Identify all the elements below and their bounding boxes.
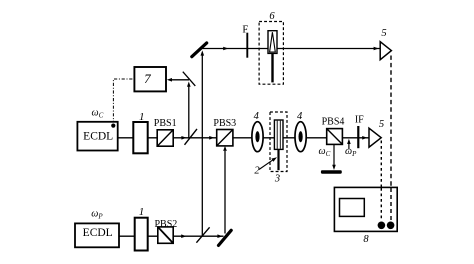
- mirror (thick, top left): [192, 43, 207, 57]
- svg-text:4: 4: [297, 111, 303, 122]
- node: dot on ECDL top right corner: [111, 124, 115, 128]
- PBS3 polarizing beam splitter: [217, 130, 233, 146]
- svg-text:7: 7: [144, 71, 151, 86]
- interference filter IF: [357, 126, 359, 148]
- wire: dash-dot control line from ECDL to box 7: [113, 79, 133, 124]
- vapor cell 3: [274, 120, 283, 170]
- wire: middle beam omega_C horizontal: [118, 137, 369, 139]
- wire arrowhead: omega_P up arrow: [347, 139, 351, 144]
- wire arrowhead: bottom beam after PBS2: [181, 234, 186, 238]
- isolator 1 (bottom): [135, 218, 148, 251]
- svg-text:5: 5: [381, 28, 386, 39]
- beam sampler plate to box 7: [183, 72, 196, 86]
- svg-text:3: 3: [274, 174, 280, 185]
- PBS4 polarizing beam splitter: [327, 129, 343, 145]
- lens 4 (right): [295, 122, 306, 152]
- photodetector 5 (middle): [369, 128, 381, 147]
- svg-text:IF: IF: [355, 114, 364, 125]
- wire arrowhead: bottom beam before mirror: [217, 234, 222, 238]
- svg-text:2: 2: [254, 165, 260, 176]
- PBS2 polarizing beam splitter: [158, 227, 173, 243]
- wire arrowhead: down into beam dump: [332, 165, 336, 170]
- svg-text:5: 5: [379, 119, 384, 130]
- oscilloscope screen: [340, 199, 365, 217]
- wire arrowhead: middle beam after IF into detector: [362, 136, 367, 140]
- svg-text:4: 4: [254, 111, 260, 122]
- wire arrowhead: up into top mirror: [201, 50, 205, 55]
- laser ECDL omega_C box: [77, 122, 117, 151]
- wire: omega_P direction up arrow after PBS4: [348, 144, 350, 150]
- svg-text:PBS1: PBS1: [154, 118, 177, 129]
- beam sampler plate after PBS1: [185, 129, 198, 145]
- label 2 with pointer arrow to cell stem: [254, 157, 277, 176]
- reference cell 6: [268, 31, 277, 83]
- dashed enclosure around cell 3: [270, 112, 287, 172]
- wire: vertical beam from bottom sampler to top mirror: [201, 56, 203, 237]
- photodetector 5 (top): [380, 42, 391, 60]
- svg-text:PBS2: PBS2: [155, 219, 178, 230]
- wire: dashed signal line from middle detector 5 to oscilloscope: [380, 141, 382, 222]
- svg-text:PBS4: PBS4: [322, 117, 345, 128]
- wire: dashed signal line from top detector 5 to oscilloscope: [390, 56, 392, 222]
- svg-text:1: 1: [139, 206, 145, 218]
- svg-text:ECDL: ECDL: [83, 130, 113, 142]
- oscilloscope 8 box: [334, 187, 397, 231]
- box 7 (wavemeter): [134, 67, 166, 91]
- wire: vertical beam from bottom mirror to PBS3: [224, 151, 226, 234]
- svg-text:PBS3: PBS3: [213, 118, 236, 129]
- laser ECDL omega_P box: [75, 223, 119, 247]
- svg-text:ECDL: ECDL: [83, 227, 113, 239]
- isolator 1 (top): [133, 122, 147, 153]
- wire arrowhead: top beam into detector 5: [374, 47, 379, 51]
- wire arrowhead: up into PBS3: [223, 146, 227, 151]
- lens 4 (left): [252, 122, 263, 152]
- beam sampler plate (bottom): [196, 227, 209, 242]
- svg-text:6: 6: [269, 11, 275, 22]
- svg-text:8: 8: [363, 234, 369, 245]
- wire arrowhead: middle beam before sampler: [181, 136, 186, 140]
- oscilloscope input connector (left dot): [378, 222, 386, 230]
- wire: horizontal beam from small mirror into box 7: [171, 79, 189, 81]
- mirror (thick, bottom): [219, 230, 232, 245]
- wire: dashed leads inside oscilloscope: [381, 188, 391, 221]
- beam dump bar: [321, 170, 342, 173]
- wire: bottom beam omega_P horizontal: [119, 235, 224, 237]
- svg-text:F: F: [242, 25, 248, 36]
- dashed enclosure around reference cell 6: [259, 22, 283, 85]
- wire arrowhead: middle beam before PBS3: [209, 136, 214, 140]
- oscilloscope input connector (right dot): [387, 222, 395, 230]
- filter F: [246, 33, 248, 58]
- PBS1 polarizing beam splitter: [157, 130, 173, 146]
- wire arrowhead: top beam before filter F: [223, 47, 228, 51]
- wire: beam down from PBS4 to beam dump: [333, 145, 335, 167]
- wire: vertical beam from middle sampler up to small mirror: [188, 85, 190, 138]
- svg-text:1: 1: [139, 111, 145, 123]
- wire arrowhead: left into box 7: [167, 78, 172, 82]
- wire arrowhead: up into small mirror: [187, 82, 191, 87]
- wire: top beam horizontal to detector 5: [203, 48, 380, 50]
